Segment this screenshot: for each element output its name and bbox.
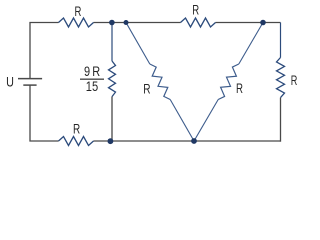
wire right diagonal lower lead [194, 100, 218, 142]
svg-text:R: R [291, 72, 298, 88]
svg-text:U: U [6, 74, 14, 90]
wire top-left segment with corner [30, 23, 59, 79]
svg-text:R: R [73, 120, 80, 136]
fraction bar [80, 78, 104, 80]
resistor R5 right vertical zigzag [277, 58, 285, 98]
node dot bottom V junction [191, 138, 197, 144]
node dot top right-diagonal [260, 20, 266, 26]
voltage source U battery long plate [18, 78, 42, 80]
wire right branch upper lead [280, 23, 282, 58]
svg-text:R: R [75, 3, 82, 19]
wire left diagonal lower lead [170, 100, 194, 142]
resistor R3 left diagonal zigzag [150, 64, 170, 100]
svg-text:R: R [236, 80, 243, 96]
resistor 9R/15 middle vertical zigzag [109, 61, 116, 97]
svg-text:15: 15 [86, 78, 99, 94]
svg-text:R: R [143, 81, 150, 97]
svg-text:R: R [192, 2, 199, 18]
voltage source U battery short plate [23, 84, 36, 86]
wire top right segment [216, 22, 281, 24]
resistor R4 right diagonal zigzag [218, 64, 239, 100]
wire left-bottom segment with corner [30, 85, 59, 141]
resistor R6 bottom zigzag [59, 137, 94, 146]
wire top middle segment [94, 22, 181, 24]
wire right diagonal upper lead [239, 23, 263, 65]
svg-text:9 R: 9 R [84, 63, 100, 79]
node dot top branch [109, 20, 115, 26]
resistor R2 top-right zigzag [181, 18, 216, 27]
node dot top left-diagonal [124, 20, 129, 25]
wire middle branch lower segment [111, 97, 113, 141]
resistor R1 top-left zigzag [59, 18, 94, 27]
wire right lower segment [280, 98, 282, 142]
node dot bottom branch [108, 138, 114, 144]
wire middle branch upper lead [111, 23, 113, 62]
wire bottom segment [94, 140, 281, 142]
wire left diagonal upper lead [126, 23, 150, 65]
